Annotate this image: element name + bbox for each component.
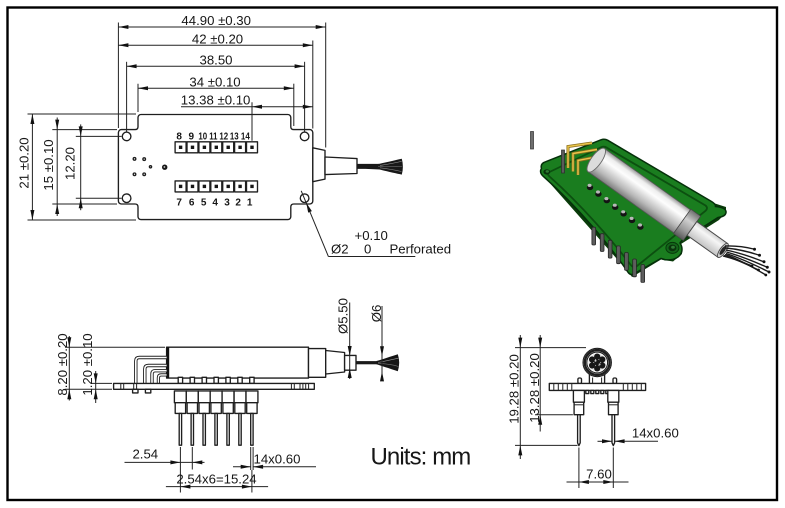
svg-text:2.54: 2.54 [132, 447, 158, 462]
svg-text:42 ±0.20: 42 ±0.20 [192, 32, 243, 47]
dimension 12.20 [63, 124, 83, 210]
pin tab left on plate [578, 378, 582, 384]
pin pads row 7-1 (top view) [175, 181, 257, 192]
extension line hole bottom center (12.20) [76, 197, 122, 199]
svg-text:9: 9 [189, 131, 195, 142]
fiber ferrule collar (top view) [313, 148, 325, 182]
white boot [687, 222, 728, 258]
plate ticks left [121, 383, 137, 389]
svg-text:8.20 ±0.20: 8.20 ±0.20 [55, 333, 70, 395]
mounting hole boss bottom-right [666, 242, 679, 253]
dimension 38.50 [127, 52, 305, 68]
extension line left pin center (7.60) [578, 448, 580, 489]
svg-text:2: 2 [235, 197, 241, 208]
left pin (end view) [578, 415, 581, 446]
plate ticks left (end view) [554, 383, 572, 390]
leader line to bottom-right hole [301, 191, 328, 257]
formed lead 1 [136, 358, 167, 384]
dimension 2.54 [125, 447, 205, 465]
svg-text:19.28 ±0.20: 19.28 ±0.20 [507, 354, 522, 424]
side view body left wall (thick) [167, 347, 170, 378]
svg-text:Perforated: Perforated [390, 242, 452, 257]
mounting hole top-left [543, 169, 550, 174]
feedthrough pads under body [178, 377, 254, 383]
plate ticks right [291, 383, 308, 389]
extension line central body right (34) [293, 84, 295, 126]
extension line circle top (19.28/13.28) [515, 347, 586, 349]
dimension Ø6 [369, 305, 384, 382]
ferrule tip (side view) [345, 355, 356, 370]
extension line hole right center (38.50) [304, 62, 306, 132]
mounting hole bottom-left [122, 194, 131, 203]
back pin sticking up at far left [531, 132, 534, 150]
svg-text:8: 8 [176, 131, 182, 142]
dimension 8.20 ±0.20 [55, 333, 72, 400]
dimension 34 ±0.10 [138, 74, 294, 90]
svg-text:Ø2: Ø2 [331, 242, 349, 257]
base plate (end view) [549, 383, 645, 390]
pin header tier 1 (side view) [174, 391, 258, 403]
svg-text:1: 1 [247, 197, 253, 208]
pin numbers 7-1 [176, 197, 252, 208]
svg-text:21 ±0.20: 21 ±0.20 [17, 137, 32, 188]
dimension 44.90 ±0.30 [118, 13, 325, 29]
extension line body top left (8.20) [65, 346, 165, 348]
right pin shoulder (end view) [608, 390, 619, 402]
left pin shoulder (end view) [573, 390, 584, 402]
fiber boot (top view) [325, 157, 357, 175]
svg-text:13.28 ±0.20: 13.28 ±0.20 [527, 353, 542, 423]
boot neck (end view) [589, 374, 604, 384]
extension line side section bottom (15) [52, 203, 117, 205]
dimension 13.38 ±0.10 [181, 92, 313, 108]
dimension 7.60 [567, 467, 629, 484]
svg-text:Ø5.50: Ø5.50 [336, 298, 351, 334]
svg-text:38.50: 38.50 [199, 52, 232, 67]
mounting hole top-right [300, 132, 309, 141]
mounting hole bottom-right [300, 194, 309, 203]
board thickness (dark underside) [540, 140, 726, 278]
header pins (side view) [179, 413, 253, 445]
dimension 2.54x6=15.24 [166, 472, 268, 489]
extension line pin1 (2.54 / 15.24) [179, 447, 181, 493]
svg-text:7: 7 [176, 197, 182, 208]
svg-text:7.60: 7.60 [586, 467, 612, 482]
extension line pin bottom (19.28) [515, 444, 578, 446]
extension line ferrule collar right (44.90) [325, 23, 327, 148]
fiber bundle cross-section [588, 354, 606, 372]
svg-text:44.90 ±0.30: 44.90 ±0.30 [181, 13, 251, 28]
dimension 14x0.60 (end view) [598, 426, 679, 444]
svg-text:14x0.60: 14x0.60 [254, 452, 301, 467]
middle pin stubs under plate [586, 390, 609, 393]
extension line plate top (1.20) [91, 382, 113, 384]
extension line pin 14 (13.38) [251, 102, 253, 141]
plate ticks right (end view) [623, 383, 641, 390]
svg-text:34 ±0.10: 34 ±0.10 [189, 74, 240, 89]
svg-text:Units: mm: Units: mm [371, 444, 471, 471]
extension line body bottom (21) [28, 219, 137, 221]
pin pads row 8-14 (top view) [175, 142, 257, 153]
svg-text:12: 12 [219, 131, 228, 142]
extension line left body edge (44.90/42) [117, 23, 119, 129]
side view base plate [114, 383, 315, 389]
dimension 13.28 ±0.20 [527, 335, 542, 432]
dimension 15 ±0.10 [41, 118, 59, 217]
pin header tier 2 (side view) [175, 403, 257, 414]
svg-text:11: 11 [209, 131, 218, 142]
svg-text:14: 14 [241, 131, 250, 142]
dimension 21 ±0.20 [17, 114, 35, 220]
top view package body outline [118, 115, 312, 220]
board inner ridge [548, 147, 707, 267]
formed lead 2 [145, 366, 167, 384]
ferrule collar (side view) [309, 349, 326, 378]
pins below board (3D) [592, 227, 645, 282]
extension line plate bottom (8.20/1.20) [65, 388, 112, 390]
fiber boot inner ring (end view) [587, 352, 608, 373]
collar ring [673, 209, 700, 240]
dark pin behind gold pins [562, 150, 565, 173]
extension line right pin center (7.60) [612, 448, 614, 489]
svg-text:13: 13 [230, 131, 239, 142]
svg-text:13.38 ±0.10: 13.38 ±0.10 [181, 92, 251, 107]
svg-text:1.20 ±0.10: 1.20 ±0.10 [80, 333, 95, 395]
extension line pin2 (2.54) [191, 447, 193, 470]
extension lines pin7 edges (14x0.60) [250, 447, 252, 470]
svg-text:2.54x6=15.24: 2.54x6=15.24 [176, 472, 256, 487]
mounting hole top-left [122, 132, 131, 141]
svg-text:3: 3 [224, 197, 230, 208]
side view body [167, 347, 309, 378]
svg-text:Ø6: Ø6 [369, 305, 384, 323]
extension line body top (21) [28, 113, 137, 115]
formed lead 4 [158, 375, 166, 383]
index dots on lid [133, 158, 151, 176]
index big dot [162, 165, 167, 170]
extension line hole left center (38.50) [126, 62, 128, 132]
extension line pin7 center (15.24) [251, 470, 253, 493]
extension line side section top (15) [52, 129, 117, 131]
pin numbers 8-14 [176, 131, 250, 142]
extension line hole top center (12.20) [76, 135, 122, 137]
svg-text:12.20: 12.20 [63, 147, 78, 180]
svg-text:14x0.60: 14x0.60 [632, 426, 679, 441]
dimension 14x0.60 (side) [233, 452, 316, 469]
fiber fan (side view) [377, 354, 400, 371]
svg-text:4: 4 [212, 197, 218, 208]
dimension Ø5.50 [336, 298, 352, 379]
extension line body right (42/13.38) [312, 41, 314, 129]
lead feet below plate [133, 389, 138, 393]
dimension 1.20 ±0.10 [80, 333, 98, 403]
pin tab right on plate [613, 378, 617, 384]
svg-text:0: 0 [364, 242, 371, 257]
svg-text:5: 5 [201, 197, 207, 208]
component studs row [587, 184, 644, 230]
gold formed pins at left end [568, 143, 601, 175]
dimension 19.28 ±0.20 [507, 335, 523, 459]
fiber (side view) [356, 361, 379, 364]
extension line central body left (34) [137, 84, 139, 112]
fiber strands fan (3D) [723, 246, 768, 275]
formed lead 3 [152, 371, 167, 384]
green PCB board top face [541, 139, 726, 274]
dimension 42 ±0.20 [118, 32, 312, 48]
right pin (end view) [612, 415, 615, 446]
fiber boot outer ring (end view) [583, 348, 611, 376]
svg-text:6: 6 [189, 197, 195, 208]
metal cylinder body [583, 145, 734, 264]
extension line shoulder bottom (13.28) [535, 414, 573, 416]
ferrule nose (side view) [326, 351, 345, 375]
svg-text:15 ±0.10: 15 ±0.10 [41, 139, 56, 190]
svg-text:10: 10 [198, 131, 207, 142]
fiber bundle fan (top view) [357, 159, 403, 175]
